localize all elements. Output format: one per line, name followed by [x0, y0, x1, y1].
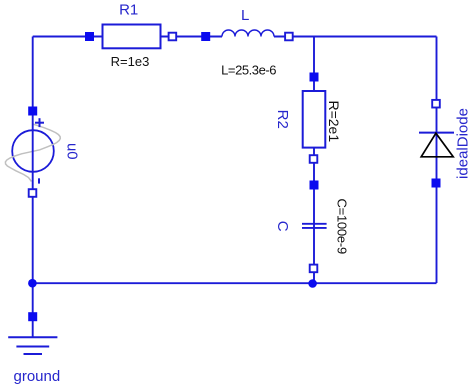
svg-text:R=2e1: R=2e1 [326, 100, 342, 142]
svg-text:ground: ground [14, 368, 61, 385]
svg-text:u0: u0 [64, 143, 81, 160]
svg-text:R1: R1 [119, 2, 138, 19]
svg-text:C=100e-9: C=100e-9 [335, 198, 350, 253]
svg-text:C: C [274, 221, 291, 232]
svg-text:L: L [241, 7, 249, 24]
svg-text:L=25.3e-6: L=25.3e-6 [221, 62, 276, 77]
svg-text:R=1e3: R=1e3 [111, 54, 150, 69]
svg-text:idealDiode: idealDiode [455, 108, 472, 179]
svg-text:R2: R2 [274, 110, 291, 129]
